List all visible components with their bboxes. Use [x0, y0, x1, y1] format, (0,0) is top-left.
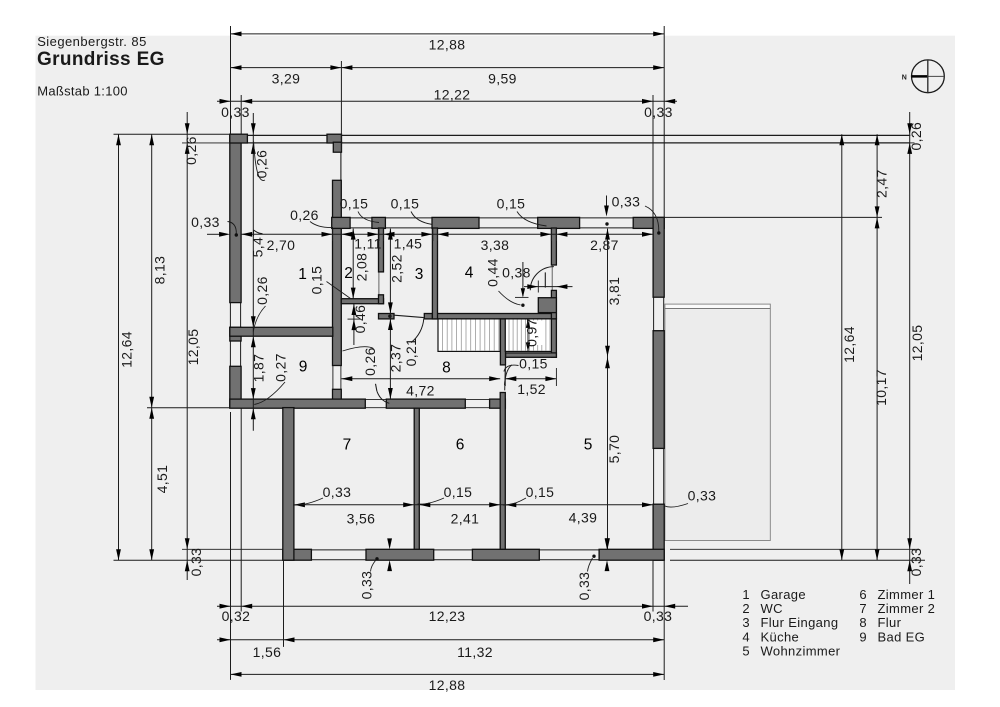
- svg-text:4,39: 4,39: [569, 509, 598, 525]
- svg-text:8: 8: [442, 360, 451, 377]
- svg-text:12,23: 12,23: [429, 608, 466, 624]
- svg-text:3,56: 3,56: [347, 510, 376, 526]
- svg-text:1,11: 1,11: [354, 236, 382, 252]
- svg-text:1,87: 1,87: [251, 354, 267, 383]
- svg-text:3,38: 3,38: [481, 237, 510, 253]
- svg-text:Flur: Flur: [878, 615, 902, 630]
- svg-text:2: 2: [742, 601, 750, 616]
- svg-text:WC: WC: [761, 601, 783, 616]
- svg-text:3: 3: [742, 615, 750, 630]
- svg-text:0,33: 0,33: [612, 193, 641, 209]
- svg-text:5: 5: [584, 437, 593, 454]
- svg-text:6: 6: [456, 437, 465, 454]
- svg-text:0,44: 0,44: [485, 258, 501, 287]
- svg-text:Siegenbergstr. 85: Siegenbergstr. 85: [37, 34, 147, 49]
- svg-text:0,33: 0,33: [576, 572, 592, 601]
- svg-text:2: 2: [344, 265, 353, 282]
- svg-text:2,70: 2,70: [267, 237, 296, 253]
- svg-text:2,41: 2,41: [451, 510, 480, 526]
- svg-text:9: 9: [299, 359, 308, 376]
- svg-text:0,21: 0,21: [403, 338, 419, 367]
- svg-text:0,46: 0,46: [352, 305, 368, 334]
- svg-text:12,05: 12,05: [909, 325, 925, 362]
- svg-text:0,15: 0,15: [526, 484, 555, 500]
- svg-text:0,33: 0,33: [221, 104, 250, 120]
- svg-text:2,08: 2,08: [354, 253, 370, 282]
- svg-text:12,88: 12,88: [429, 36, 466, 52]
- svg-text:Grundriss EG: Grundriss EG: [37, 49, 165, 70]
- svg-text:12,64: 12,64: [841, 326, 857, 363]
- svg-text:0,33: 0,33: [688, 488, 717, 504]
- svg-text:3,29: 3,29: [272, 70, 301, 86]
- svg-text:1,45: 1,45: [394, 236, 423, 252]
- svg-text:5,70: 5,70: [606, 435, 622, 464]
- svg-text:Maßstab 1:100: Maßstab 1:100: [37, 84, 128, 99]
- svg-text:0,26: 0,26: [908, 122, 924, 151]
- svg-text:0,97: 0,97: [523, 318, 539, 347]
- svg-text:0,33: 0,33: [191, 214, 220, 230]
- svg-text:0,26: 0,26: [183, 136, 199, 165]
- svg-text:2,52: 2,52: [389, 254, 405, 283]
- svg-text:0,38: 0,38: [502, 264, 531, 280]
- svg-text:12,64: 12,64: [119, 331, 135, 368]
- svg-text:5,47: 5,47: [250, 229, 266, 258]
- svg-text:N: N: [902, 74, 907, 81]
- svg-text:4: 4: [465, 265, 474, 282]
- svg-text:0,33: 0,33: [644, 104, 673, 120]
- svg-text:0,27: 0,27: [273, 353, 289, 382]
- svg-text:2,47: 2,47: [874, 169, 890, 198]
- svg-text:Bad EG: Bad EG: [878, 629, 926, 644]
- svg-text:Wohnzimmer: Wohnzimmer: [761, 643, 841, 658]
- svg-text:2,87: 2,87: [590, 237, 619, 253]
- svg-text:0,26: 0,26: [254, 276, 270, 305]
- svg-text:Garage: Garage: [761, 587, 806, 602]
- svg-text:5: 5: [742, 643, 750, 658]
- svg-text:3: 3: [415, 266, 424, 283]
- svg-text:0,15: 0,15: [340, 195, 369, 211]
- svg-text:4: 4: [742, 629, 750, 644]
- svg-text:0,32: 0,32: [222, 608, 251, 624]
- svg-text:10,17: 10,17: [873, 369, 889, 406]
- svg-text:11,32: 11,32: [457, 644, 493, 660]
- svg-text:0,33: 0,33: [908, 548, 924, 577]
- svg-text:12,88: 12,88: [429, 677, 466, 693]
- svg-text:4,51: 4,51: [154, 465, 170, 494]
- svg-text:0,15: 0,15: [309, 266, 325, 295]
- svg-text:Zimmer 1: Zimmer 1: [878, 587, 936, 602]
- svg-text:Küche: Küche: [761, 629, 800, 644]
- svg-text:0,15: 0,15: [444, 484, 473, 500]
- svg-text:Zimmer 2: Zimmer 2: [878, 601, 936, 616]
- svg-text:1,56: 1,56: [253, 644, 282, 660]
- svg-text:3,81: 3,81: [606, 277, 622, 306]
- svg-text:0,33: 0,33: [188, 548, 204, 577]
- svg-text:0,33: 0,33: [323, 484, 352, 500]
- svg-text:0,15: 0,15: [391, 195, 420, 211]
- svg-text:12,05: 12,05: [185, 329, 201, 366]
- svg-text:9,59: 9,59: [488, 70, 517, 86]
- svg-text:6: 6: [859, 587, 867, 602]
- svg-text:7: 7: [343, 437, 352, 454]
- svg-text:4,72: 4,72: [406, 382, 435, 398]
- svg-text:0,15: 0,15: [519, 355, 548, 371]
- svg-text:0,33: 0,33: [644, 608, 673, 624]
- svg-text:1: 1: [298, 266, 307, 283]
- svg-text:0,33: 0,33: [359, 571, 375, 600]
- svg-text:0,26: 0,26: [290, 207, 319, 223]
- svg-text:1: 1: [742, 587, 750, 602]
- svg-text:0,15: 0,15: [497, 195, 526, 211]
- svg-text:2,37: 2,37: [388, 344, 404, 373]
- svg-text:Flur Eingang: Flur Eingang: [761, 615, 839, 630]
- svg-text:1,52: 1,52: [517, 381, 546, 397]
- svg-text:12,22: 12,22: [434, 86, 471, 102]
- svg-text:9: 9: [859, 629, 867, 644]
- svg-text:8,13: 8,13: [152, 256, 168, 285]
- svg-text:7: 7: [859, 601, 867, 616]
- svg-text:8: 8: [859, 615, 867, 630]
- svg-text:0,26: 0,26: [362, 347, 378, 376]
